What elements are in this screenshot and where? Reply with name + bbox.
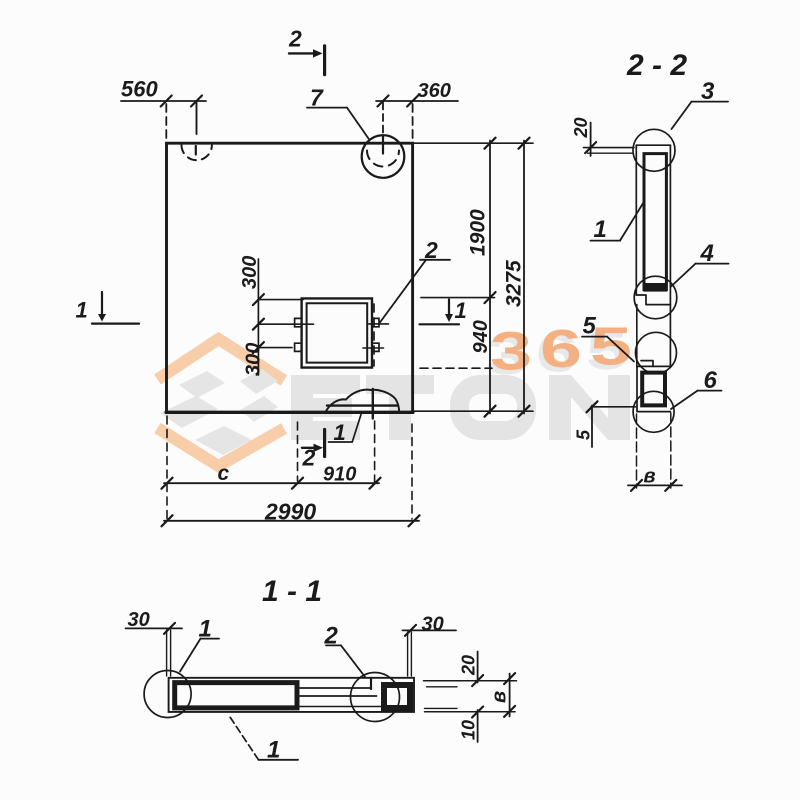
svg-text:2: 2 xyxy=(288,26,302,52)
svg-text:1: 1 xyxy=(594,216,607,243)
svg-text:560: 560 xyxy=(121,77,158,102)
svg-text:3275: 3275 xyxy=(503,260,526,307)
svg-text:910: 910 xyxy=(323,464,356,486)
svg-text:6: 6 xyxy=(704,367,718,394)
svg-text:1: 1 xyxy=(267,737,280,764)
svg-text:300: 300 xyxy=(239,256,261,289)
svg-text:3: 3 xyxy=(490,322,532,382)
svg-text:20: 20 xyxy=(571,117,591,138)
svg-text:в: в xyxy=(644,466,656,488)
svg-text:2 - 2: 2 - 2 xyxy=(626,49,687,82)
svg-text:10: 10 xyxy=(459,720,479,740)
svg-text:30: 30 xyxy=(128,609,150,631)
svg-text:1: 1 xyxy=(199,616,212,643)
svg-text:1900: 1900 xyxy=(467,209,490,256)
svg-text:2: 2 xyxy=(324,623,339,650)
svg-text:20: 20 xyxy=(459,655,479,676)
svg-text:1: 1 xyxy=(334,420,346,445)
svg-text:5: 5 xyxy=(583,313,597,340)
svg-text:6: 6 xyxy=(540,319,582,379)
svg-text:в: в xyxy=(489,691,511,703)
svg-text:1: 1 xyxy=(455,298,467,323)
svg-text:3: 3 xyxy=(701,78,715,105)
svg-text:2: 2 xyxy=(302,445,316,471)
svg-text:5: 5 xyxy=(574,429,594,440)
svg-text:300: 300 xyxy=(243,343,265,376)
svg-text:5: 5 xyxy=(590,317,632,377)
svg-text:1: 1 xyxy=(76,298,88,323)
svg-text:1 - 1: 1 - 1 xyxy=(262,575,322,608)
svg-text:2: 2 xyxy=(424,237,438,263)
svg-text:360: 360 xyxy=(418,80,451,102)
svg-text:940: 940 xyxy=(470,320,492,353)
svg-text:7: 7 xyxy=(310,85,324,111)
svg-text:2990: 2990 xyxy=(264,499,316,525)
svg-text:4: 4 xyxy=(700,240,714,267)
svg-text:30: 30 xyxy=(422,614,444,636)
svg-text:c: c xyxy=(218,462,230,485)
